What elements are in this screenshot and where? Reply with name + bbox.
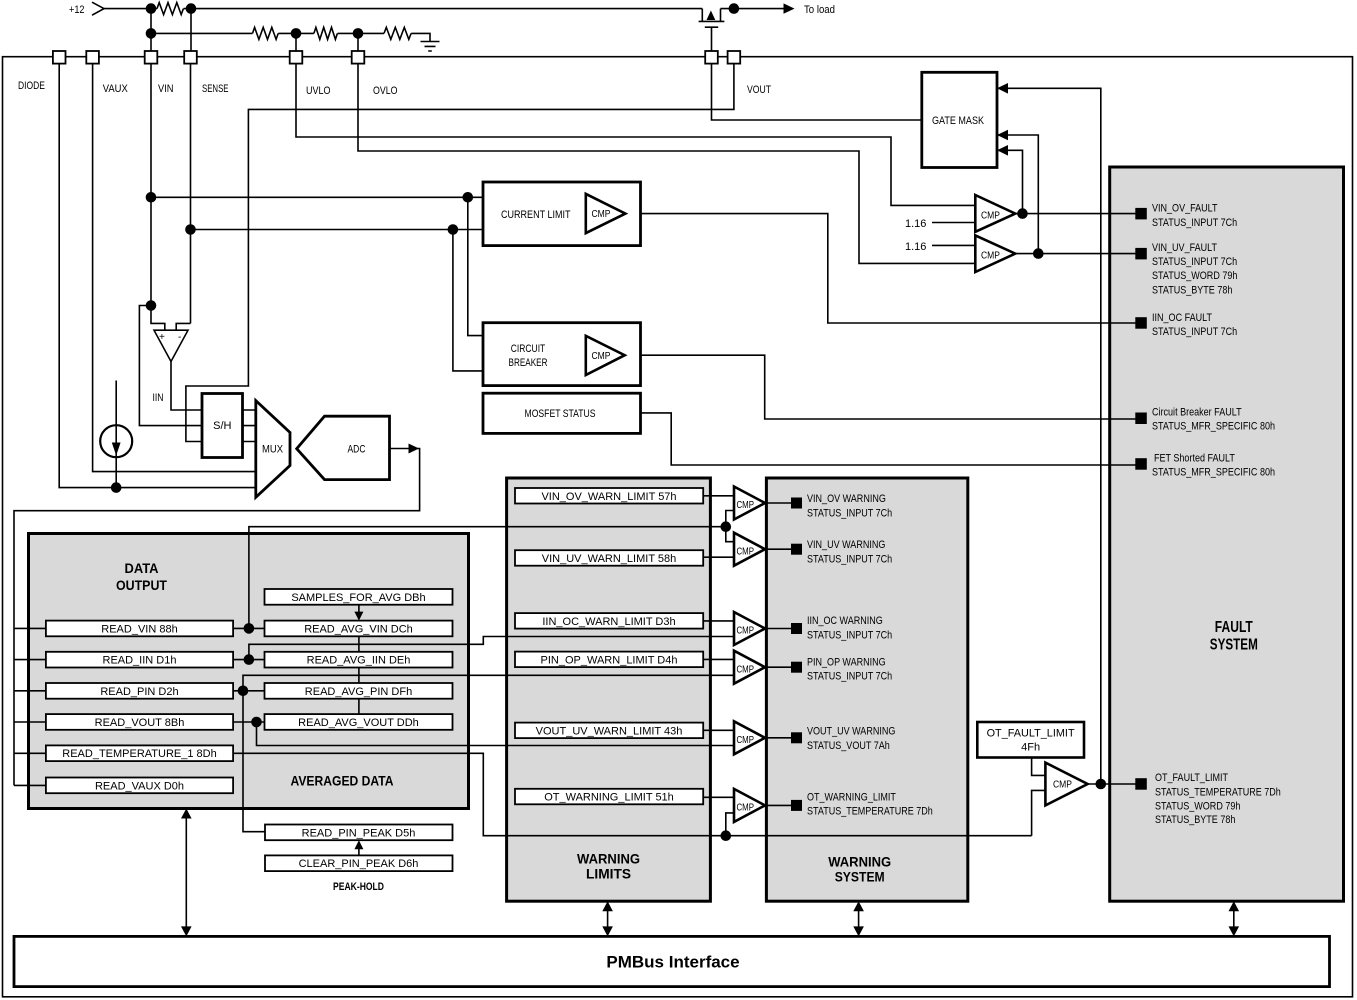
- wire SENSE pin down: [190, 64, 192, 324]
- svg-text:To load: To load: [804, 4, 835, 16]
- wire READ_IIN row connector: [233, 659, 264, 661]
- register SAMPLES_FOR_AVG DBh: [265, 589, 453, 605]
- ground symbol: [421, 42, 440, 52]
- pin OT_FAULT_LIMIT: [1135, 778, 1147, 790]
- svg-text:CMP: CMP: [737, 664, 755, 675]
- svg-text:FAULT: FAULT: [1215, 619, 1253, 636]
- wire GATE MASK feedback from U2: [997, 150, 1023, 213]
- junction source/VOUT: [729, 3, 740, 14]
- junction READ_VIN row: [244, 623, 255, 634]
- wire DATA OUTPUT to PMBus double arrow: [185, 817, 187, 927]
- svg-text:CMP: CMP: [737, 803, 755, 814]
- wire CIRCUIT BREAKER output to fault pin: [625, 355, 1141, 419]
- svg-text:+12: +12: [69, 4, 85, 16]
- register READ_PIN D2h: [46, 683, 233, 699]
- svg-text:READ_AVG_VOUT DDh: READ_AVG_VOUT DDh: [298, 717, 419, 729]
- wire READ_VOUT row connector: [233, 721, 264, 723]
- svg-text:VOUT_UV_WARN_LIMIT 43h: VOUT_UV_WARN_LIMIT 43h: [536, 725, 683, 737]
- comparator CMP PIN_OP warn: [734, 651, 765, 684]
- wire READ_VIN to warn comparators net: [249, 527, 726, 629]
- wire MOSFET STATUS output to fault pin: [641, 413, 1141, 465]
- register OT_WARNING_LIMIT 51h: [515, 789, 703, 805]
- wire DIODE pin to MUX input: [59, 64, 262, 488]
- svg-text:UVLO: UVLO: [306, 85, 331, 97]
- block WARNING LIMITS (gray): [507, 478, 711, 901]
- svg-text:ADC: ADC: [348, 444, 366, 456]
- resistor R3 (divider bottom): [384, 27, 411, 39]
- wire VIN branch to S-H input 2: [139, 306, 202, 426]
- block GATE MASK: [922, 72, 997, 167]
- block PMBus Interface: [14, 936, 1330, 986]
- svg-text:STATUS_WORD 79h: STATUS_WORD 79h: [1155, 801, 1240, 813]
- comparator U3 VIN_UV: [975, 235, 1015, 272]
- node To-load arrowhead: [784, 3, 795, 13]
- svg-text:SENSE: SENSE: [202, 83, 229, 95]
- wire READ_VIN row connector: [233, 627, 264, 629]
- svg-text:FET Shorted FAULT: FET Shorted FAULT: [1154, 452, 1235, 464]
- wire OVLO pin tap: [357, 33, 359, 51]
- svg-text:WARNING: WARNING: [577, 851, 640, 867]
- junction U3 output feedback: [1033, 248, 1044, 259]
- svg-text:CMP: CMP: [981, 251, 1000, 262]
- junction OVLO tap: [353, 28, 364, 39]
- svg-text:STATUS_TEMPERATURE 7Dh: STATUS_TEMPERATURE 7Dh: [807, 805, 933, 817]
- transistor Q1 body arrow: [707, 11, 716, 21]
- svg-text:IIN: IIN: [153, 392, 164, 404]
- svg-text:STATUS_INPUT 7Ch: STATUS_INPUT 7Ch: [807, 630, 892, 642]
- register CLEAR_PIN_PEAK D6h: [265, 855, 453, 871]
- pin VIN_OV_FAULT: [1135, 208, 1147, 220]
- svg-text:VIN_OV_WARN_LIMIT 57h: VIN_OV_WARN_LIMIT 57h: [541, 491, 676, 503]
- wire amp minus input jog: [176, 323, 190, 331]
- svg-text:PEAK-HOLD: PEAK-HOLD: [333, 881, 384, 893]
- wire divider rail R1 to R2: [278, 32, 314, 34]
- svg-text:CMP: CMP: [592, 209, 611, 220]
- wire AVG register chain verticals: [358, 636, 360, 714]
- pin UVLO: [290, 51, 303, 64]
- wire VAUX pin to MUX input: [93, 64, 280, 472]
- comparator CMP circuit breaker: [586, 336, 625, 375]
- svg-text:1.16: 1.16: [905, 218, 926, 230]
- svg-text:CMP: CMP: [981, 211, 1000, 222]
- svg-text:STATUS_INPUT 7Ch: STATUS_INPUT 7Ch: [1152, 256, 1237, 268]
- register READ_IIN D1h: [46, 652, 233, 668]
- svg-text:STATUS_BYTE 78h: STATUS_BYTE 78h: [1155, 814, 1235, 826]
- wire S-H outputs to MUX: [243, 410, 257, 442]
- svg-text:S/H: S/H: [213, 420, 231, 432]
- junction current-limit/breaker B: [448, 224, 459, 235]
- node ADC output arrowhead: [409, 444, 420, 454]
- svg-text:VIN_UV_FAULT: VIN_UV_FAULT: [1152, 242, 1217, 254]
- junction OT cmp output feedback: [1096, 779, 1107, 790]
- svg-text:Circuit Breaker FAULT: Circuit Breaker FAULT: [1152, 406, 1242, 418]
- wire warn limit 51h to cmp: [703, 796, 734, 798]
- svg-text:OT_FAULT_LIMIT: OT_FAULT_LIMIT: [987, 727, 1075, 739]
- svg-text:READ_VOUT 8Bh: READ_VOUT 8Bh: [95, 717, 185, 729]
- comparator CMP VIN_UV warn: [734, 533, 765, 566]
- wire 1.16V reference stub to U3: [932, 244, 975, 246]
- svg-text:VOUT_UV WARNING: VOUT_UV WARNING: [807, 726, 895, 738]
- block MOSFET STATUS: [483, 393, 641, 433]
- comparator CMP IIN_OC warn: [734, 612, 765, 645]
- register READ_PIN_PEAK D5h: [265, 825, 453, 841]
- svg-text:OT_FAULT_LIMIT: OT_FAULT_LIMIT: [1155, 772, 1228, 784]
- wire OT cmp output to fault pin: [1088, 783, 1141, 785]
- wire warn cmp outputs to warning pins: [765, 503, 797, 805]
- wire R3 to ground: [411, 33, 430, 41]
- wire U2 output to VIN_OV_FAULT pin: [1015, 213, 1141, 215]
- wire OT warn cmp jog: [726, 813, 734, 836]
- svg-text:OVLO: OVLO: [373, 85, 398, 97]
- svg-text:VIN_UV WARNING: VIN_UV WARNING: [807, 539, 885, 551]
- wire +12 rail left segment: [104, 8, 157, 10]
- svg-text:MUX: MUX: [262, 444, 284, 456]
- register PIN_OP_WARN_LIMIT D4h: [515, 652, 703, 668]
- register READ_AVG_VOUT DDh: [265, 714, 453, 730]
- wire VOUT pin return to S-H input 3: [186, 64, 734, 442]
- wire branch to CIRCUIT BREAKER input B: [453, 230, 483, 371]
- svg-text:LIMITS: LIMITS: [586, 866, 631, 882]
- svg-text:VIN_OV_FAULT: VIN_OV_FAULT: [1152, 203, 1218, 215]
- svg-text:DATA: DATA: [125, 560, 159, 576]
- pin OT WARNING: [791, 800, 802, 811]
- svg-text:READ_TEMPERATURE_1 8Dh: READ_TEMPERATURE_1 8Dh: [62, 748, 216, 760]
- wire ADC output with corner: [14, 449, 420, 786]
- svg-text:CMP: CMP: [737, 500, 755, 511]
- wire PIN value to warn comparator: [243, 675, 734, 691]
- junction +12/SENSE: [186, 3, 197, 14]
- wire VOUT value to warn comparator: [257, 722, 735, 746]
- wire FAULT SYSTEM to PMBus double arrow: [1233, 909, 1235, 928]
- junction diode net/current source: [111, 482, 122, 493]
- svg-text:READ_IIN D1h: READ_IIN D1h: [103, 655, 177, 667]
- svg-text:OT_WARNING_LIMIT 51h: OT_WARNING_LIMIT 51h: [544, 792, 674, 804]
- svg-text:PMBus Interface: PMBus Interface: [606, 953, 739, 972]
- svg-text:CIRCUIT: CIRCUIT: [511, 343, 546, 355]
- svg-text:-: -: [178, 332, 181, 343]
- block CURRENT LIMIT: [483, 182, 641, 246]
- wire 1.16V reference stub to U2: [932, 222, 975, 224]
- svg-text:4Fh: 4Fh: [1021, 741, 1040, 753]
- wire VIN_UV cmp jog: [726, 527, 734, 542]
- junction READ_VOUT row: [251, 717, 262, 728]
- register VOUT_UV_WARN_LIMIT 43h: [515, 723, 703, 739]
- wire IIN value to warn comparator: [249, 637, 734, 660]
- junction +12/VIN: [146, 3, 157, 14]
- op-amp U4 current sense amplifier: [154, 330, 188, 361]
- svg-text:MOSFET STATUS: MOSFET STATUS: [525, 408, 596, 420]
- svg-text:+: +: [159, 332, 165, 343]
- svg-text:SAMPLES_FOR_AVG DBh: SAMPLES_FOR_AVG DBh: [291, 592, 425, 604]
- node CLEAR arrowhead: [354, 840, 363, 849]
- svg-text:READ_AVG_PIN DFh: READ_AVG_PIN DFh: [305, 686, 412, 698]
- svg-text:PIN_OP WARNING: PIN_OP WARNING: [807, 657, 886, 669]
- svg-text:READ_PIN D2h: READ_PIN D2h: [100, 686, 178, 698]
- svg-text:VOUT: VOUT: [747, 84, 771, 96]
- svg-text:CLEAR_PIN_PEAK D6h: CLEAR_PIN_PEAK D6h: [299, 858, 419, 870]
- wire OT_FAULT_LIMIT box to cmp input: [1032, 758, 1046, 776]
- svg-text:STATUS_MFR_SPECIFIC 80h: STATUS_MFR_SPECIFIC 80h: [1152, 421, 1275, 433]
- junction OT warn net: [721, 830, 732, 841]
- pin Circuit Breaker FAULT: [1135, 413, 1147, 425]
- svg-text:STATUS_WORD 79h: STATUS_WORD 79h: [1152, 270, 1237, 282]
- svg-text:STATUS_INPUT 7Ch: STATUS_INPUT 7Ch: [1152, 326, 1237, 338]
- register OT_FAULT_LIMIT 4Fh: [977, 722, 1084, 758]
- wire GATE MASK feedback from U3: [997, 135, 1038, 254]
- svg-text:GATE MASK: GATE MASK: [932, 115, 985, 127]
- wire GATE pin to GATE MASK: [712, 64, 922, 120]
- wire WARNING SYSTEM to PMBus double arrow: [858, 909, 860, 928]
- junction UVLO tap: [291, 28, 302, 39]
- svg-text:READ_AVG_IIN DEh: READ_AVG_IIN DEh: [307, 655, 411, 667]
- pin VOUT_UV WARNING: [791, 732, 802, 743]
- wire UVLO to comparator U2: [296, 64, 975, 206]
- wire data-bus stubs to READ registers: [14, 628, 46, 785]
- wire amp output IIN to S-H input 1: [171, 362, 202, 411]
- svg-text:STATUS_BYTE 78h: STATUS_BYTE 78h: [1152, 284, 1232, 296]
- junction U2 output feedback: [1017, 208, 1028, 219]
- pin FET Shorted FAULT: [1135, 458, 1147, 470]
- wire MOSFET source to load: [721, 8, 785, 10]
- svg-text:PIN_OP_WARN_LIMIT D4h: PIN_OP_WARN_LIMIT D4h: [541, 654, 678, 666]
- svg-text:STATUS_INPUT 7Ch: STATUS_INPUT 7Ch: [807, 554, 892, 566]
- svg-text:CMP: CMP: [1053, 780, 1072, 791]
- junction divider rail: [146, 28, 157, 39]
- wire CLEAR to READ_PIN_PEAK arrow shaft: [358, 842, 360, 856]
- comparator CMP OT warn: [734, 789, 765, 822]
- wire warn limit 43h to cmp: [703, 729, 734, 731]
- comparator U2 VIN_OV: [975, 195, 1015, 232]
- block S/H: [202, 394, 243, 458]
- wire PIN value to peak register: [243, 691, 265, 832]
- svg-text:CMP: CMP: [737, 735, 755, 746]
- wire CURRENT LIMIT output to IIN_OC FAULT pin: [625, 214, 1140, 323]
- svg-text:READ_AVG_VIN DCh: READ_AVG_VIN DCh: [304, 623, 413, 635]
- current source I1: [100, 425, 132, 457]
- block DATA OUTPUT (gray): [29, 534, 469, 809]
- svg-text:IIN_OC FAULT: IIN_OC FAULT: [1152, 312, 1212, 324]
- comparator CMP current limit: [586, 194, 626, 233]
- svg-text:AVERAGED DATA: AVERAGED DATA: [291, 773, 394, 789]
- block WARNING SYSTEM (gray): [766, 478, 967, 901]
- transistor Q1 pass MOSFET: [699, 9, 725, 51]
- wire warn limit D3h to cmp: [703, 620, 734, 622]
- block ADC: [297, 416, 390, 479]
- svg-text:STATUS_TEMPERATURE 7Dh: STATUS_TEMPERATURE 7Dh: [1155, 786, 1281, 798]
- svg-text:OT_WARNING_LIMIT: OT_WARNING_LIMIT: [807, 792, 896, 804]
- block FAULT SYSTEM (gray): [1110, 167, 1344, 901]
- wire divider rail from VIN node: [151, 32, 253, 34]
- svg-text:STATUS_VOUT 7Ah: STATUS_VOUT 7Ah: [807, 740, 890, 752]
- svg-text:OUTPUT: OUTPUT: [116, 577, 167, 593]
- junction READ_PIN row: [238, 686, 249, 697]
- register VIN_OV_WARN_LIMIT 57h: [515, 488, 703, 504]
- junction VIN/current-limit: [146, 192, 157, 203]
- svg-text:SYSTEM: SYSTEM: [835, 869, 885, 885]
- pin VIN_OV WARNING: [791, 498, 802, 509]
- svg-text:STATUS_INPUT 7Ch: STATUS_INPUT 7Ch: [807, 507, 892, 519]
- wire divider rail R2 to R3: [338, 32, 384, 34]
- pin SENSE: [184, 51, 197, 64]
- node SAMPLES arrowhead: [354, 612, 363, 621]
- register READ_AVG_IIN DEh: [265, 652, 453, 668]
- svg-text:STATUS_INPUT 7Ch: STATUS_INPUT 7Ch: [1152, 217, 1237, 229]
- svg-text:WARNING: WARNING: [828, 854, 891, 870]
- svg-text:VAUX: VAUX: [103, 83, 129, 95]
- svg-text:STATUS_MFR_SPECIFIC 80h: STATUS_MFR_SPECIFIC 80h: [1152, 467, 1275, 479]
- pin VIN_UV WARNING: [791, 544, 802, 555]
- wire WARNING LIMITS to PMBus double arrow: [607, 909, 609, 928]
- wire VIN pin down to amp node: [150, 64, 152, 306]
- block MUX: [256, 401, 290, 498]
- wire warn limit D4h to cmp: [703, 658, 734, 660]
- wire +12 rail to MOSFET drain: [184, 8, 703, 10]
- pin GATE: [705, 51, 718, 64]
- wire warn limit 57h to cmp: [703, 495, 734, 497]
- wire VIN tap down from rail: [150, 9, 152, 51]
- wire GATE MASK feedback from OT comparator: [997, 88, 1101, 784]
- register IIN_OC_WARN_LIMIT D3h: [515, 613, 703, 629]
- register READ_VOUT 8Bh: [46, 714, 233, 730]
- register VIN_UV_WARN_LIMIT 58h: [515, 550, 703, 566]
- svg-text:VIN: VIN: [158, 83, 174, 95]
- node +12 input arrow: [92, 2, 104, 15]
- junction VIN/amp branch: [146, 300, 157, 311]
- register READ_AVG_PIN DFh: [265, 683, 453, 699]
- wire READ_PIN row connector: [233, 690, 264, 692]
- svg-text:DIODE: DIODE: [18, 80, 45, 92]
- svg-text:READ_VIN 88h: READ_VIN 88h: [101, 623, 177, 635]
- junction READ_IIN row: [244, 654, 255, 665]
- register READ_VAUX D0h: [46, 778, 233, 794]
- pin VIN: [145, 51, 158, 64]
- svg-text:CURRENT LIMIT: CURRENT LIMIT: [501, 209, 571, 221]
- svg-text:SYSTEM: SYSTEM: [1210, 637, 1258, 654]
- wire UVLO pin tap: [295, 33, 297, 51]
- resistor R-sense (shunt) on +12 rail: [157, 3, 183, 15]
- pin IIN_OC FAULT: [1135, 317, 1147, 329]
- node GATE MASK input arrowheads: [997, 83, 1008, 156]
- wire VIN_OV cmp jog: [726, 511, 734, 527]
- wire amp plus input jog: [151, 306, 165, 332]
- pin VOUT: [728, 51, 741, 64]
- pin OVLO: [352, 51, 365, 64]
- wire inner data-bus vertical: [27, 628, 29, 785]
- pin DIODE: [53, 51, 66, 64]
- svg-text:CMP: CMP: [737, 546, 755, 557]
- wire OT net to cmp input: [1032, 790, 1046, 835]
- svg-text:VIN_OV WARNING: VIN_OV WARNING: [807, 493, 886, 505]
- wire U3 output to VIN_UV_FAULT pin: [1015, 253, 1141, 255]
- wire branch to CIRCUIT BREAKER input A: [468, 197, 483, 335]
- wire warn limit 58h to cmp: [703, 556, 734, 558]
- wire SENSE to CURRENT LIMIT input: [191, 229, 484, 231]
- svg-text:IIN_OC_WARN_LIMIT D3h: IIN_OC_WARN_LIMIT D3h: [542, 616, 675, 628]
- svg-text:STATUS_INPUT 7Ch: STATUS_INPUT 7Ch: [807, 671, 892, 683]
- comparator CMP OT fault: [1045, 763, 1087, 806]
- pin IIN_OC WARNING: [791, 623, 802, 634]
- svg-text:1.16: 1.16: [905, 241, 926, 253]
- wire SENSE tap down from rail: [190, 9, 192, 51]
- wire current source to diode net: [115, 381, 117, 488]
- svg-text:CMP: CMP: [592, 351, 611, 362]
- wire OVLO to comparator U3: [358, 64, 975, 264]
- pin VIN_UV_FAULT: [1135, 248, 1147, 260]
- svg-text:VIN_UV_WARN_LIMIT 58h: VIN_UV_WARN_LIMIT 58h: [542, 553, 677, 565]
- svg-text:BREAKER: BREAKER: [509, 357, 548, 369]
- junction current-limit/breaker A: [463, 192, 474, 203]
- resistor R2 (divider middle): [314, 27, 337, 39]
- svg-text:READ_VAUX D0h: READ_VAUX D0h: [95, 780, 184, 792]
- resistor R1 (UVLO divider top): [253, 27, 279, 39]
- comparator CMP VIN_OV warn: [734, 487, 765, 520]
- pin VAUX: [86, 51, 99, 64]
- register READ_VIN 88h: [46, 621, 233, 637]
- wire VIN to CURRENT LIMIT input: [151, 196, 483, 198]
- comparator CMP VOUT_UV warn: [734, 721, 765, 754]
- block CIRCUIT BREAKER: [483, 323, 641, 386]
- junction VIN warn net: [721, 521, 732, 532]
- svg-text:IIN_OC WARNING: IIN_OC WARNING: [807, 615, 883, 627]
- wire SAMPLES to AVG_VIN arrow shaft: [358, 605, 360, 619]
- wire TEMPERATURE value to OT comparators: [233, 753, 1032, 835]
- svg-text:CMP: CMP: [737, 626, 755, 637]
- svg-text:READ_PIN_PEAK D5h: READ_PIN_PEAK D5h: [302, 827, 416, 839]
- pin PIN_OP WARNING: [791, 662, 802, 673]
- register READ_TEMPERATURE_1 8Dh: [46, 745, 233, 761]
- junction SENSE/current-limit: [185, 224, 196, 235]
- register READ_AVG_VIN DCh: [265, 621, 453, 637]
